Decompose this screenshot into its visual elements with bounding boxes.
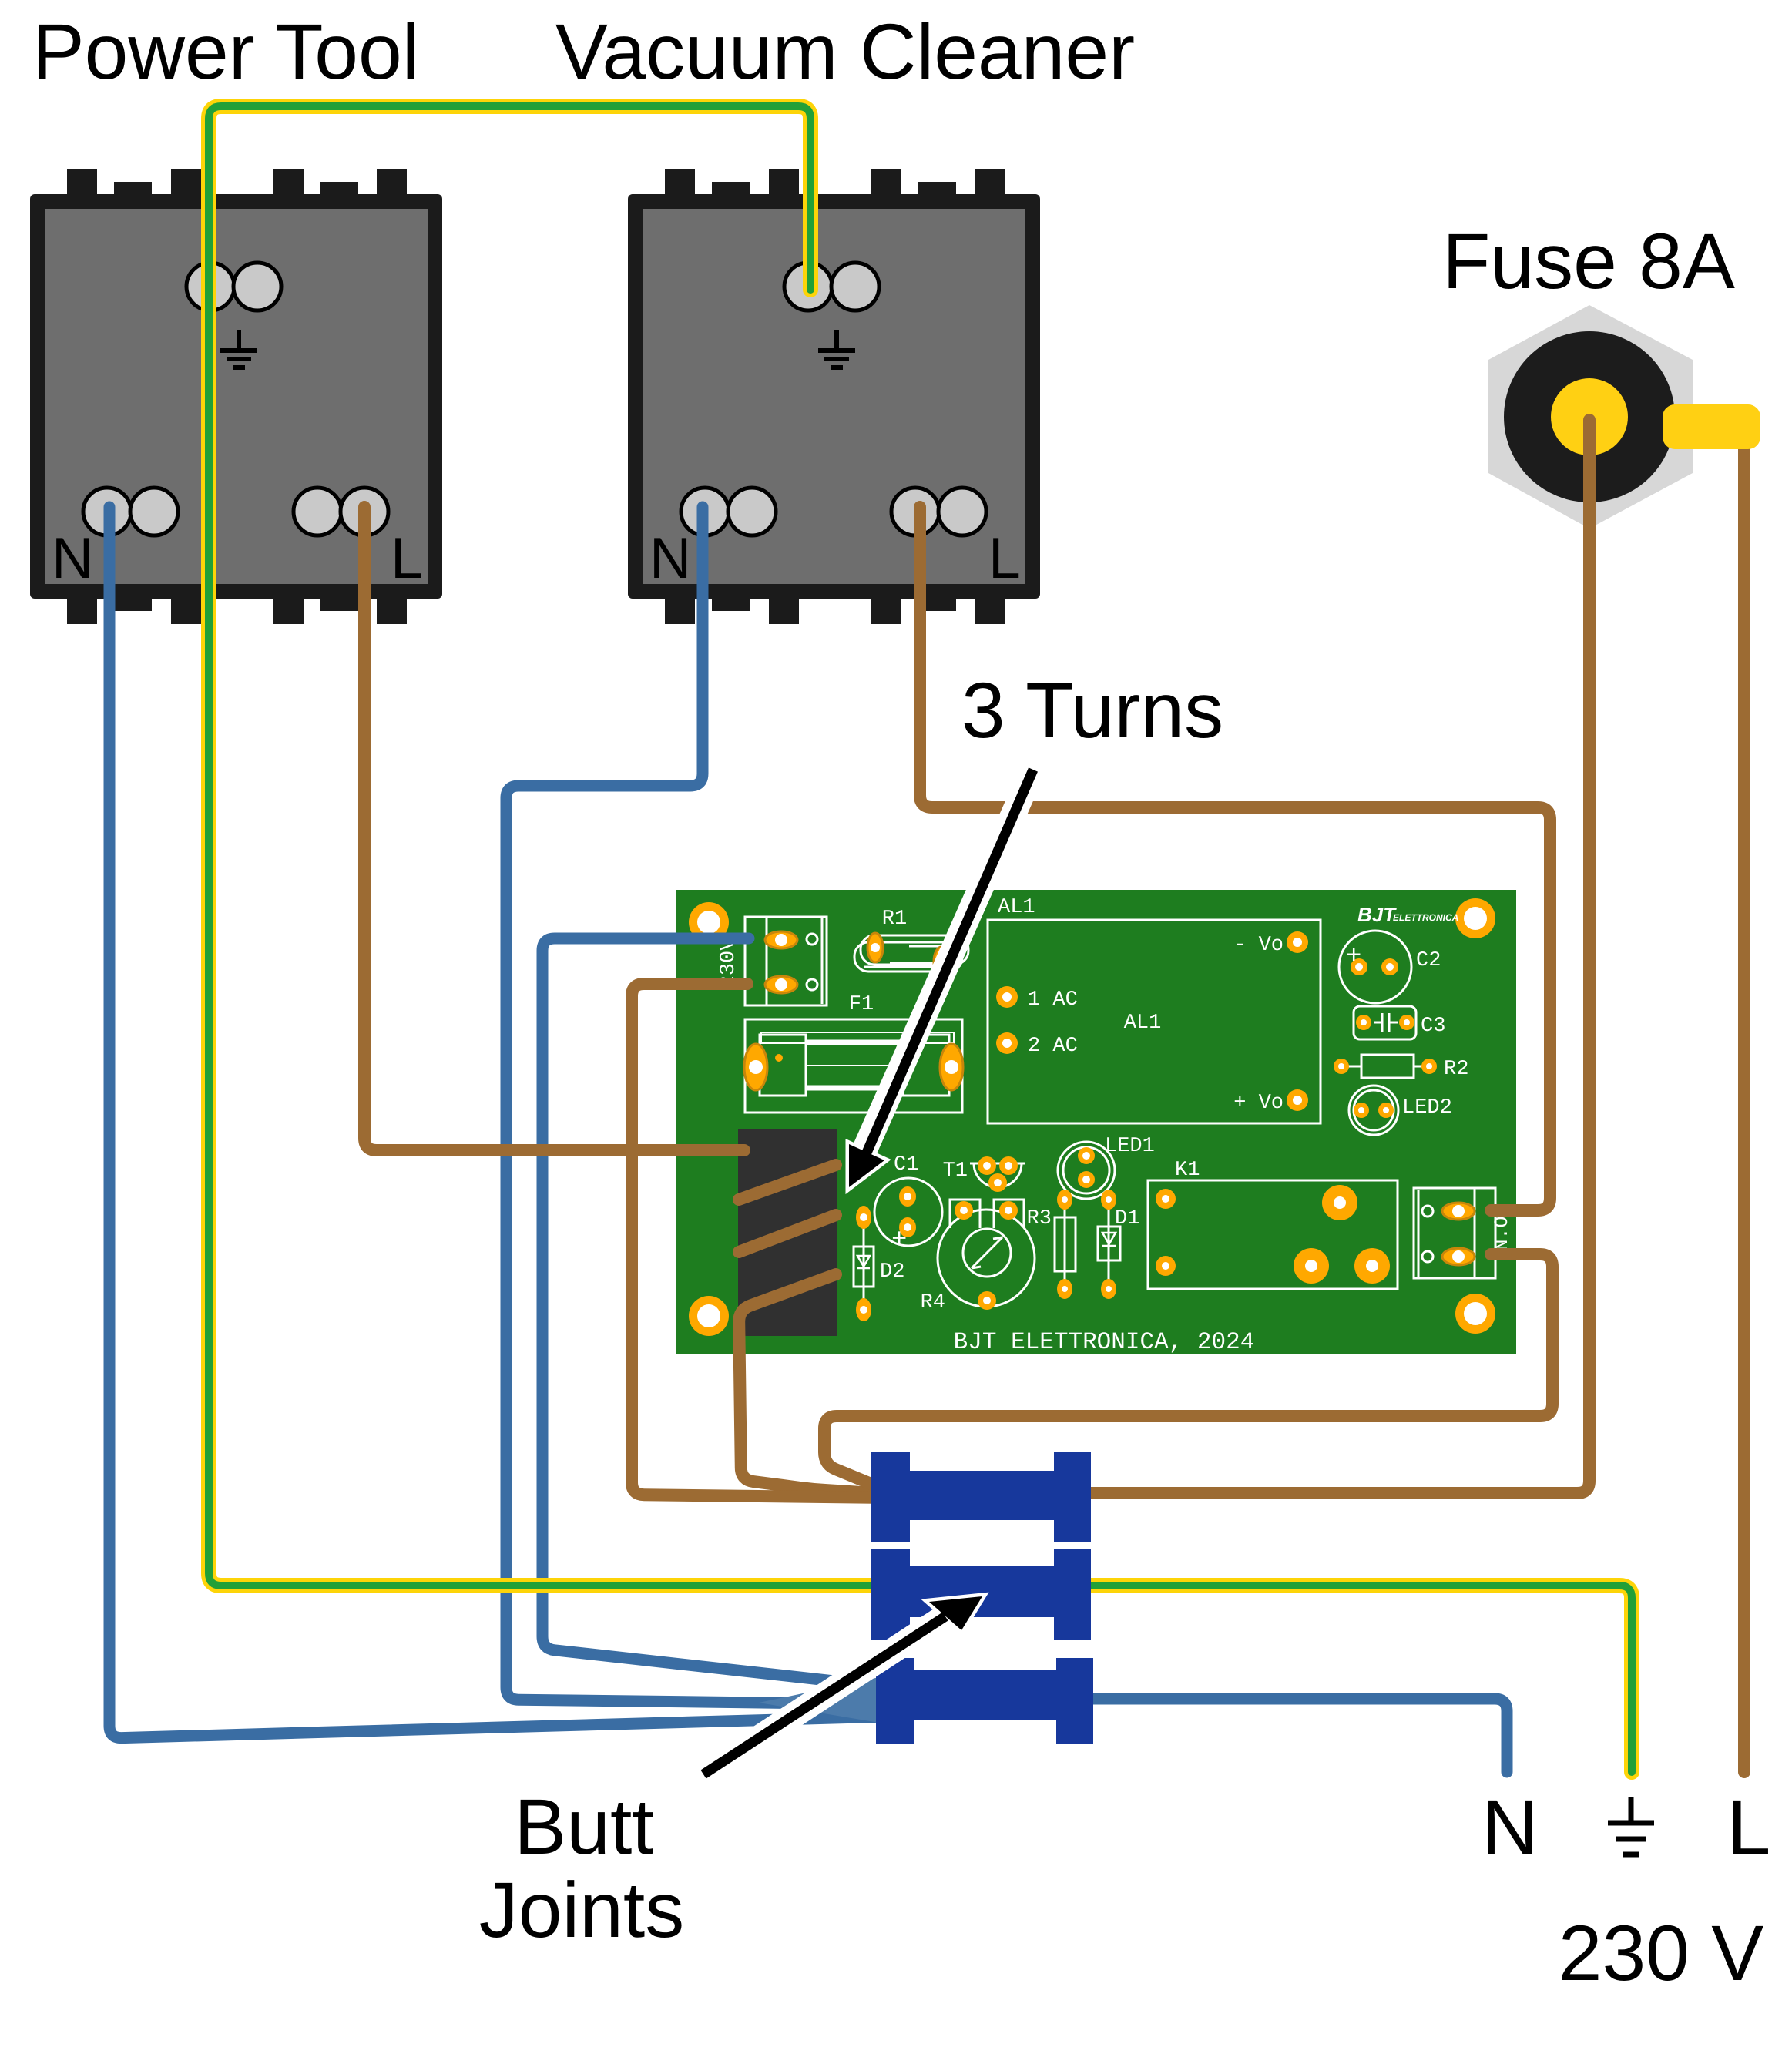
svg-text:Butt: Butt bbox=[514, 1783, 653, 1871]
svg-text:R3: R3 bbox=[1027, 1207, 1052, 1230]
svg-text:2 AC: 2 AC bbox=[1028, 1035, 1078, 1058]
svg-text:D2: D2 bbox=[880, 1260, 904, 1284]
svg-text:1 AC: 1 AC bbox=[1028, 988, 1078, 1012]
svg-text:LED2: LED2 bbox=[1402, 1096, 1452, 1119]
svg-text:F1: F1 bbox=[849, 993, 874, 1016]
svg-text:Joints: Joints bbox=[479, 1866, 684, 1954]
svg-text:Vacuum Cleaner: Vacuum Cleaner bbox=[555, 8, 1135, 96]
svg-text:3 Turns: 3 Turns bbox=[961, 666, 1223, 754]
svg-text:- Vo: - Vo bbox=[1233, 934, 1284, 957]
svg-text:C2: C2 bbox=[1416, 949, 1441, 972]
svg-text:R1: R1 bbox=[882, 908, 907, 931]
svg-text:230 V: 230 V bbox=[1559, 1909, 1764, 1997]
svg-text:R2: R2 bbox=[1444, 1058, 1468, 1081]
svg-text:N: N bbox=[1482, 1784, 1539, 1871]
svg-text:AL1: AL1 bbox=[998, 896, 1035, 919]
svg-text:Fuse 8A: Fuse 8A bbox=[1442, 217, 1735, 305]
svg-text:Power Tool: Power Tool bbox=[32, 8, 420, 96]
svg-text:D1: D1 bbox=[1115, 1207, 1139, 1230]
svg-text:C1: C1 bbox=[894, 1153, 918, 1176]
svg-text:N.O: N.O bbox=[1491, 1216, 1513, 1250]
svg-text:LED1: LED1 bbox=[1105, 1135, 1155, 1158]
svg-text:K1: K1 bbox=[1175, 1159, 1200, 1182]
svg-text:BJT: BJT bbox=[1357, 903, 1397, 926]
svg-text:+: + bbox=[891, 1226, 907, 1255]
svg-text:BJT ELETTRONICA, 2024: BJT ELETTRONICA, 2024 bbox=[954, 1329, 1255, 1356]
svg-text:+ Vo: + Vo bbox=[1233, 1092, 1284, 1115]
svg-text:R4: R4 bbox=[921, 1291, 945, 1314]
svg-text:ELETTRONICA: ELETTRONICA bbox=[1393, 912, 1458, 923]
svg-text:L: L bbox=[1727, 1784, 1771, 1871]
svg-text:C3: C3 bbox=[1421, 1015, 1445, 1038]
svg-text:T1: T1 bbox=[943, 1160, 968, 1183]
svg-text:+: + bbox=[1346, 942, 1361, 972]
svg-text:AL1: AL1 bbox=[1124, 1012, 1162, 1035]
